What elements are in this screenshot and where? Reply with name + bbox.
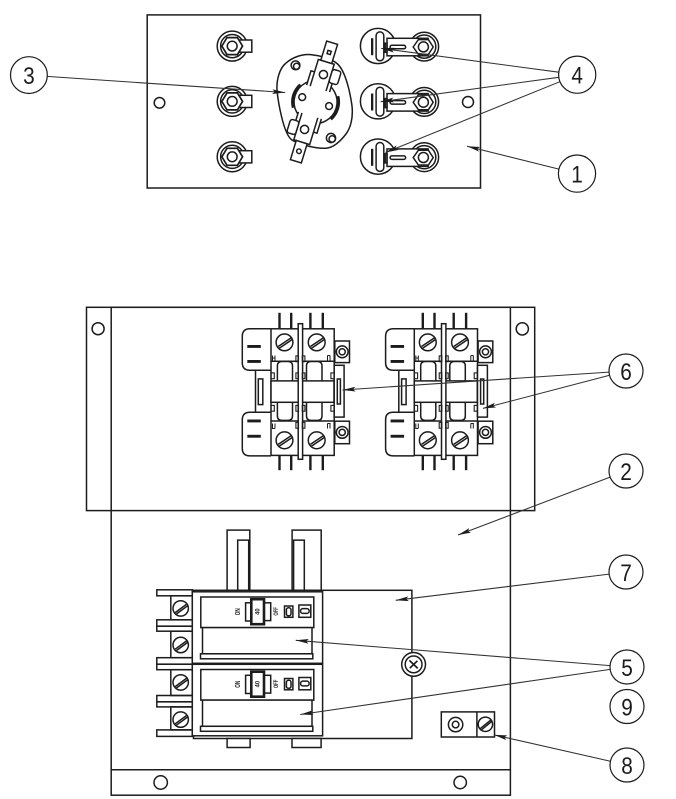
svg-text:7: 7: [620, 558, 632, 586]
thermostat flange: [277, 54, 352, 148]
flange hole left: [154, 776, 167, 789]
svg-text:9: 9: [621, 693, 633, 721]
svg-text:2: 2: [620, 457, 632, 485]
svg-text:1: 1: [571, 160, 583, 188]
svg-text:5: 5: [621, 653, 633, 681]
callout balloon 4: [559, 56, 596, 93]
panel1 left mounting hole: [154, 98, 165, 109]
callout balloon 1: [558, 155, 595, 192]
arrowhead at fuse 2: [380, 98, 394, 105]
terminal post 2: [217, 86, 252, 116]
arrowhead at fuse 3: [385, 145, 399, 154]
leader line to fuse 1 (4): [381, 48, 559, 72]
callout balloon 8: [610, 748, 644, 782]
fuse holder 3: [360, 139, 438, 174]
leader line to box (2): [458, 477, 610, 535]
lug rail bars: [157, 590, 193, 737]
leader line to terminal block (8): [494, 735, 610, 761]
contactor KM2 (right): [386, 313, 493, 470]
thermostat top bracket: [307, 71, 334, 92]
thermostat flange hole A: [291, 61, 300, 70]
flange hole right: [454, 776, 466, 788]
panel1 right mounting hole: [463, 97, 474, 108]
breaker bracket foot left: [227, 739, 250, 748]
callout balloon 2: [609, 454, 643, 488]
fuse holder 1: [360, 28, 438, 63]
fuse holder 2: [360, 84, 438, 119]
callout balloon 9: [610, 690, 644, 724]
thermostat disc body: [289, 75, 343, 129]
svg-text:6: 6: [620, 357, 632, 385]
panel 2 hole top-left: [92, 323, 104, 335]
thermostat bottom blade: [290, 140, 307, 162]
svg-text:3: 3: [23, 61, 35, 89]
thermostat top base: [310, 59, 334, 91]
panel 2 tall front box: [111, 307, 510, 795]
arrowhead at thermostat: [272, 89, 285, 95]
svg-text:4: 4: [571, 61, 583, 89]
panel 1 (upper mounting panel): [147, 15, 480, 188]
arrowhead at fuse 1: [381, 46, 395, 52]
lug blocks: [171, 596, 193, 730]
panel 2 hole top-right: [516, 323, 528, 335]
svg-text:8: 8: [621, 751, 633, 779]
arrowhead at panel 1: [466, 144, 480, 152]
leader line to breaker QF2 (5): [300, 669, 610, 714]
arrowhead at breaker QF2: [300, 710, 314, 717]
thermostat bottom base: [294, 113, 318, 145]
breaker mounting bracket right prong: [292, 530, 321, 590]
callout balloon 5: [610, 650, 644, 684]
circuit breaker QF2 (lower): [192, 664, 322, 736]
contactor KM1 (left): [242, 313, 349, 470]
terminal post 3: [217, 142, 252, 172]
thermostat bottom bracket: [294, 112, 321, 133]
leader line to plate (7): [396, 574, 610, 600]
arrowhead at breaker QF1: [296, 638, 309, 644]
terminal post 1: [217, 31, 252, 61]
leader line to contactor KM2 (6): [483, 375, 610, 408]
plate screw (phillips): [402, 653, 426, 677]
terminal block (item 8): [441, 712, 494, 737]
arrowhead at terminal block: [494, 733, 508, 741]
lug screws: [173, 601, 188, 728]
thermostat disc hatch arcs: [290, 84, 341, 121]
leader line to breaker QF1 (5): [296, 640, 610, 665]
thermostat disc holes: [298, 93, 306, 101]
thermostat flange hole B: [326, 133, 335, 142]
thermostat top ear: [329, 69, 342, 85]
leader line to fuse 2 (4): [381, 77, 559, 101]
panel 2 upper wide back plate: [87, 307, 535, 510]
arrowhead at contactor KM1: [342, 387, 355, 393]
thermostat (disc type, item 3): [275, 36, 355, 168]
leader line to contactor KM1 (6): [343, 372, 610, 390]
breaker bracket foot right: [292, 739, 321, 748]
thermostat top blade: [321, 41, 338, 63]
panel 2 bottom flange line: [111, 769, 510, 771]
arrowhead at box 2: [457, 528, 471, 537]
callout balloon 7: [609, 555, 643, 589]
leader line to fuse 3 (4): [386, 82, 560, 153]
thermostat bottom ear: [287, 119, 300, 135]
breaker mounting bracket left prong: [227, 530, 250, 590]
callout balloon 3: [11, 57, 48, 94]
callout balloon 6: [609, 354, 643, 388]
leader line to panel (1): [467, 146, 559, 169]
circuit breaker QF1 (upper, items 5/9): [192, 592, 322, 664]
arrowhead at plate 7: [395, 596, 408, 602]
arrowhead at contactor KM2: [482, 403, 496, 411]
breaker mounting plate (item 7): [194, 590, 412, 738]
leader line to thermostat (3): [47, 76, 285, 92]
